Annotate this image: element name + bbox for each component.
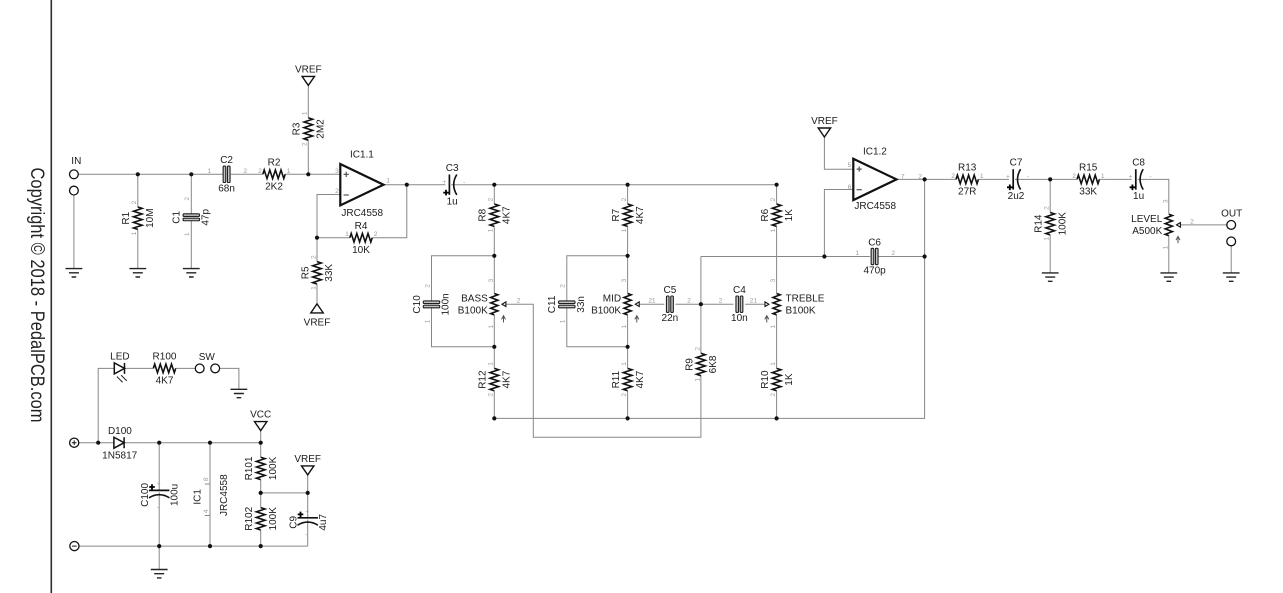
wire bbox=[125, 367, 154, 369]
wire bbox=[1230, 246, 1232, 273]
wire bbox=[79, 442, 114, 444]
svg-text:R13: R13 bbox=[958, 163, 977, 174]
svg-text:C3: C3 bbox=[446, 163, 459, 174]
resistor R101 bbox=[244, 456, 279, 480]
ground bbox=[66, 269, 83, 277]
junction bbox=[492, 254, 496, 258]
junction bbox=[96, 441, 100, 445]
capacitor C100 bbox=[140, 481, 181, 511]
capacitor C5 bbox=[662, 285, 679, 324]
svg-text:3: 3 bbox=[488, 278, 495, 282]
VREF supply bbox=[295, 64, 322, 85]
wire bbox=[73, 195, 75, 269]
svg-text:7: 7 bbox=[901, 173, 905, 180]
resistor R6 bbox=[760, 197, 795, 232]
svg-text:D100: D100 bbox=[108, 426, 132, 437]
svg-text:4K7: 4K7 bbox=[156, 376, 174, 387]
resistor R7 bbox=[611, 197, 646, 232]
junction bbox=[775, 183, 779, 187]
svg-text:1: 1 bbox=[652, 298, 656, 305]
svg-text:1: 1 bbox=[770, 228, 777, 232]
wire bbox=[285, 173, 340, 175]
svg-text:+: + bbox=[1129, 174, 1133, 181]
capacitor C10 bbox=[412, 284, 452, 324]
wire bbox=[1180, 224, 1226, 226]
svg-text:1u: 1u bbox=[447, 197, 458, 208]
wire bbox=[493, 226, 495, 255]
svg-text:1: 1 bbox=[424, 319, 431, 323]
wire bbox=[432, 256, 495, 301]
junction bbox=[315, 236, 319, 240]
svg-text:VREF: VREF bbox=[295, 64, 322, 75]
svg-text:C8: C8 bbox=[1132, 158, 1145, 169]
wire bbox=[1099, 178, 1131, 180]
svg-text:2: 2 bbox=[687, 298, 691, 305]
svg-text:A500K: A500K bbox=[1132, 226, 1162, 237]
wire bbox=[700, 257, 702, 354]
potentiometer LEVEL bbox=[1131, 199, 1180, 249]
svg-text:1: 1 bbox=[488, 228, 495, 232]
capacitor C8 bbox=[1129, 158, 1152, 203]
junction bbox=[626, 345, 630, 349]
wire bbox=[627, 185, 629, 204]
svg-text:R102: R102 bbox=[244, 506, 255, 530]
svg-text:100K: 100K bbox=[268, 507, 279, 531]
svg-text:B100K: B100K bbox=[591, 305, 621, 316]
wire bbox=[137, 229, 139, 268]
svg-text:2: 2 bbox=[951, 173, 955, 180]
VCC supply bbox=[250, 410, 271, 431]
svg-text:33K: 33K bbox=[1079, 187, 1097, 198]
svg-text:C9: C9 bbox=[289, 515, 300, 528]
svg-text:2: 2 bbox=[131, 200, 138, 204]
svg-text:R8: R8 bbox=[478, 208, 489, 221]
svg-text:+: + bbox=[305, 508, 309, 515]
resistor R12 bbox=[478, 362, 513, 397]
svg-text:1: 1 bbox=[310, 286, 317, 290]
svg-text:10n: 10n bbox=[731, 313, 748, 324]
junction bbox=[306, 491, 310, 495]
potentiometer TREBLE bbox=[765, 278, 825, 328]
connector OUT jack bbox=[1221, 208, 1242, 245]
connector IN jack bbox=[70, 156, 82, 195]
junction bbox=[626, 416, 630, 420]
potentiometer MID bbox=[591, 278, 639, 328]
wire bbox=[675, 303, 701, 305]
svg-text:27R: 27R bbox=[958, 187, 976, 198]
svg-text:R11: R11 bbox=[611, 370, 622, 388]
junction bbox=[259, 441, 263, 445]
svg-text:1: 1 bbox=[855, 250, 859, 257]
svg-text:1: 1 bbox=[694, 378, 701, 382]
junction bbox=[775, 416, 779, 420]
IC1 power rail bbox=[209, 443, 211, 546]
svg-text:3: 3 bbox=[1162, 199, 1169, 203]
ground bbox=[1223, 273, 1240, 281]
wire bbox=[260, 530, 262, 546]
svg-text:C10: C10 bbox=[412, 295, 423, 314]
wire bbox=[824, 190, 853, 257]
wire bbox=[307, 140, 309, 174]
svg-text:1: 1 bbox=[302, 111, 309, 115]
capacitor C4 bbox=[731, 285, 748, 324]
svg-text:R101: R101 bbox=[244, 456, 255, 480]
svg-text:VREF: VREF bbox=[811, 116, 838, 127]
svg-text:33n: 33n bbox=[576, 296, 587, 313]
svg-text:2: 2 bbox=[335, 188, 339, 195]
svg-text:100n: 100n bbox=[441, 293, 452, 315]
svg-text:1K: 1K bbox=[784, 209, 795, 222]
ground bbox=[129, 269, 146, 277]
IC1 power JRC4558 bbox=[193, 474, 230, 516]
svg-text:2: 2 bbox=[302, 142, 309, 146]
wire bbox=[701, 256, 870, 258]
svg-text:10K: 10K bbox=[352, 245, 370, 256]
svg-text:1: 1 bbox=[207, 168, 211, 175]
svg-text:R10: R10 bbox=[760, 370, 771, 389]
junction bbox=[405, 183, 409, 187]
svg-text:2: 2 bbox=[621, 393, 628, 397]
wire bbox=[493, 315, 495, 347]
resistor R15 bbox=[1072, 163, 1105, 198]
op-amp IC1.2 bbox=[853, 147, 896, 212]
wire bbox=[307, 475, 309, 518]
resistor R100 bbox=[153, 352, 177, 387]
wire bbox=[776, 226, 778, 293]
op-amp IC1.1 bbox=[340, 150, 383, 220]
junction bbox=[189, 172, 193, 176]
svg-text:2: 2 bbox=[488, 393, 495, 397]
terminal - (GND) bbox=[70, 542, 79, 551]
svg-text:2: 2 bbox=[374, 231, 378, 238]
wire bbox=[567, 308, 628, 347]
svg-text:1: 1 bbox=[560, 319, 567, 323]
svg-text:2: 2 bbox=[621, 197, 628, 201]
svg-text:5: 5 bbox=[848, 162, 852, 169]
svg-text:2: 2 bbox=[560, 284, 567, 288]
svg-text:R7: R7 bbox=[611, 208, 622, 221]
LED bbox=[110, 351, 129, 382]
junction bbox=[492, 416, 496, 420]
resistor R13 bbox=[951, 163, 984, 198]
ground bbox=[231, 389, 248, 397]
svg-text:1u: 1u bbox=[1133, 191, 1144, 202]
capacitor C6 bbox=[855, 237, 895, 276]
wire bbox=[897, 178, 957, 180]
wire bbox=[627, 226, 629, 255]
svg-text:4u7: 4u7 bbox=[318, 514, 329, 531]
svg-text:R6: R6 bbox=[760, 208, 771, 221]
svg-text:6: 6 bbox=[848, 184, 852, 191]
svg-text:1: 1 bbox=[386, 178, 390, 185]
svg-text:2: 2 bbox=[1044, 206, 1051, 210]
junction bbox=[157, 441, 161, 445]
junction bbox=[492, 183, 496, 187]
svg-text:2: 2 bbox=[258, 168, 262, 175]
wire bbox=[493, 256, 495, 294]
svg-text:Copyright © 2018 - PedalPCB.co: Copyright © 2018 - PedalPCB.com bbox=[26, 168, 48, 423]
junction bbox=[1048, 177, 1052, 181]
svg-text:LED: LED bbox=[110, 351, 129, 362]
svg-text:1: 1 bbox=[1162, 245, 1169, 249]
svg-text:R9: R9 bbox=[684, 358, 695, 371]
junction bbox=[626, 254, 630, 258]
wire bbox=[1049, 235, 1051, 273]
wire bbox=[190, 174, 192, 214]
junction bbox=[822, 254, 826, 258]
svg-text:C2: C2 bbox=[220, 155, 233, 166]
capacitor C1 bbox=[172, 197, 212, 237]
wire bbox=[627, 347, 629, 369]
svg-text:-: - bbox=[157, 504, 159, 511]
wire bbox=[261, 492, 308, 494]
svg-text:C100: C100 bbox=[140, 483, 151, 507]
wire bbox=[824, 137, 853, 169]
wire bbox=[158, 443, 160, 491]
resistor R5 bbox=[300, 255, 335, 290]
capacitor C7 bbox=[1006, 158, 1029, 203]
resistor R8 bbox=[478, 197, 513, 232]
svg-text:IN: IN bbox=[71, 156, 81, 167]
junction bbox=[306, 172, 310, 176]
wire bbox=[260, 431, 262, 443]
svg-text:2: 2 bbox=[770, 197, 777, 201]
svg-text:C1: C1 bbox=[172, 210, 183, 223]
wire bbox=[627, 256, 629, 294]
svg-text:IC1: IC1 bbox=[193, 489, 204, 505]
wire bbox=[567, 256, 628, 301]
svg-text:C5: C5 bbox=[664, 285, 677, 296]
svg-text:3: 3 bbox=[335, 168, 339, 175]
svg-text:2: 2 bbox=[517, 298, 521, 305]
svg-text:-: - bbox=[1149, 174, 1151, 181]
svg-text:C6: C6 bbox=[868, 237, 881, 248]
wire bbox=[493, 185, 495, 204]
svg-text:JRC4558: JRC4558 bbox=[219, 474, 230, 516]
svg-text:1: 1 bbox=[287, 168, 291, 175]
wire bbox=[260, 443, 262, 458]
wire bbox=[316, 284, 318, 304]
junction bbox=[259, 491, 263, 495]
svg-text:1: 1 bbox=[488, 362, 495, 366]
wire bbox=[220, 368, 239, 389]
wire bbox=[493, 347, 495, 369]
svg-text:2: 2 bbox=[891, 250, 895, 257]
svg-text:4K7: 4K7 bbox=[502, 206, 513, 224]
svg-text:4K7: 4K7 bbox=[635, 206, 646, 224]
svg-text:R12: R12 bbox=[478, 370, 489, 389]
wire bbox=[1015, 178, 1077, 180]
svg-text:1: 1 bbox=[1044, 237, 1051, 241]
wire bbox=[1138, 179, 1169, 214]
svg-text:R3: R3 bbox=[292, 122, 303, 135]
wire bbox=[494, 179, 924, 418]
capacitor C11 bbox=[547, 284, 587, 324]
resistor R11 bbox=[611, 362, 646, 397]
wire bbox=[231, 173, 263, 175]
svg-text:JRC4558: JRC4558 bbox=[854, 201, 896, 212]
svg-text:VCC: VCC bbox=[250, 410, 271, 421]
wire bbox=[776, 315, 778, 369]
svg-text:1: 1 bbox=[621, 325, 628, 329]
svg-text:1: 1 bbox=[770, 362, 777, 366]
svg-text:2M2: 2M2 bbox=[316, 119, 327, 139]
svg-text:JRC4558: JRC4558 bbox=[341, 208, 383, 219]
wire bbox=[384, 184, 445, 186]
svg-text:-: - bbox=[463, 179, 465, 186]
svg-text:-: - bbox=[1027, 174, 1029, 181]
svg-text:47p: 47p bbox=[200, 209, 211, 226]
svg-text:4: 4 bbox=[203, 509, 210, 513]
wire bbox=[158, 492, 160, 546]
VREF supply bbox=[811, 116, 838, 137]
svg-text:1: 1 bbox=[770, 325, 777, 329]
wire bbox=[98, 368, 114, 442]
wire bbox=[316, 238, 318, 262]
wire bbox=[701, 303, 734, 305]
svg-text:100u: 100u bbox=[170, 484, 181, 506]
wire bbox=[260, 480, 262, 493]
potentiometer BASS bbox=[458, 278, 506, 328]
junction bbox=[492, 345, 496, 349]
wire bbox=[432, 308, 495, 347]
svg-text:8: 8 bbox=[203, 477, 210, 481]
svg-text:1: 1 bbox=[754, 298, 758, 305]
svg-text:4K7: 4K7 bbox=[635, 370, 646, 388]
svg-text:1: 1 bbox=[488, 325, 495, 329]
svg-text:1: 1 bbox=[621, 228, 628, 232]
svg-text:LEVEL: LEVEL bbox=[1131, 214, 1163, 225]
svg-text:B100K: B100K bbox=[786, 305, 816, 316]
svg-text:1: 1 bbox=[980, 173, 984, 180]
svg-text:1N5817: 1N5817 bbox=[102, 450, 137, 461]
svg-text:2K2: 2K2 bbox=[265, 182, 283, 193]
svg-text:10M: 10M bbox=[145, 208, 156, 227]
svg-text:2u2: 2u2 bbox=[1008, 191, 1025, 202]
resistor R2 bbox=[258, 158, 291, 193]
svg-text:1K: 1K bbox=[784, 373, 795, 386]
capacitor C3 bbox=[442, 163, 465, 208]
svg-text:22n: 22n bbox=[662, 313, 679, 324]
svg-text:2: 2 bbox=[488, 197, 495, 201]
wire bbox=[372, 185, 407, 238]
svg-text:1: 1 bbox=[1101, 173, 1105, 180]
svg-text:2: 2 bbox=[770, 393, 777, 397]
switch SW bbox=[195, 352, 219, 373]
wire bbox=[639, 303, 664, 305]
diode D100 bbox=[102, 426, 137, 462]
svg-text:2: 2 bbox=[424, 284, 431, 288]
wire bbox=[124, 442, 261, 444]
svg-text:+: + bbox=[442, 179, 446, 186]
svg-text:-: - bbox=[305, 531, 307, 538]
svg-text:100K: 100K bbox=[1057, 212, 1068, 236]
svg-text:R4: R4 bbox=[355, 221, 368, 232]
svg-text:6K8: 6K8 bbox=[708, 355, 719, 373]
wire bbox=[627, 315, 629, 347]
ground bbox=[151, 570, 168, 578]
svg-text:33K: 33K bbox=[324, 264, 335, 282]
wire bbox=[627, 391, 629, 419]
VREF supply bbox=[294, 454, 321, 475]
svg-text:470p: 470p bbox=[863, 266, 886, 277]
wire bbox=[1168, 235, 1170, 273]
svg-text:R1: R1 bbox=[121, 211, 132, 224]
wire bbox=[878, 256, 925, 258]
svg-text:+: + bbox=[1006, 174, 1010, 181]
svg-text:C7: C7 bbox=[1010, 158, 1023, 169]
junction bbox=[208, 441, 212, 445]
resistor R10 bbox=[760, 362, 795, 397]
svg-text:2: 2 bbox=[310, 255, 317, 259]
resistor R3 bbox=[292, 111, 327, 146]
svg-text:1: 1 bbox=[345, 231, 349, 238]
ground bbox=[1160, 273, 1177, 281]
capacitor C2 bbox=[207, 155, 247, 194]
svg-text:1: 1 bbox=[184, 232, 191, 236]
svg-text:3: 3 bbox=[770, 278, 777, 282]
resistor R4 bbox=[345, 221, 378, 256]
capacitor C9 bbox=[289, 508, 330, 538]
svg-text:2: 2 bbox=[918, 173, 922, 180]
VREF supply bbox=[304, 304, 331, 329]
svg-text:C4: C4 bbox=[733, 285, 746, 296]
svg-text:1: 1 bbox=[131, 231, 138, 235]
svg-text:VREF: VREF bbox=[304, 318, 331, 329]
svg-text:R2: R2 bbox=[268, 158, 281, 169]
svg-text:2: 2 bbox=[1190, 218, 1194, 225]
resistor R14 bbox=[1034, 206, 1069, 241]
wire bbox=[158, 546, 160, 569]
junction bbox=[923, 254, 927, 258]
svg-text:SW: SW bbox=[199, 352, 216, 363]
svg-text:3: 3 bbox=[621, 278, 628, 282]
svg-text:MID: MID bbox=[603, 294, 621, 305]
wire bbox=[978, 178, 1009, 180]
svg-text:C11: C11 bbox=[547, 295, 558, 313]
svg-text:R14: R14 bbox=[1034, 214, 1045, 233]
wire bbox=[78, 173, 223, 175]
wire bbox=[176, 367, 196, 369]
ground bbox=[183, 269, 200, 277]
wire bbox=[493, 391, 495, 419]
junction bbox=[136, 172, 140, 176]
wire bbox=[776, 391, 778, 419]
svg-text:2: 2 bbox=[184, 197, 191, 201]
wire bbox=[190, 221, 192, 269]
resistor R1 bbox=[121, 200, 156, 235]
wire bbox=[745, 303, 765, 305]
wire bbox=[79, 545, 308, 547]
svg-text:R15: R15 bbox=[1079, 163, 1098, 174]
wire bbox=[317, 237, 350, 239]
svg-text:IC1.2: IC1.2 bbox=[863, 147, 887, 158]
svg-text:B100K: B100K bbox=[458, 305, 488, 316]
svg-text:IC1.1: IC1.1 bbox=[350, 150, 374, 161]
svg-text:+: + bbox=[157, 481, 161, 488]
svg-text:2: 2 bbox=[719, 298, 723, 305]
junction bbox=[259, 544, 263, 548]
junction bbox=[208, 544, 212, 548]
wire bbox=[1049, 179, 1051, 212]
wire bbox=[506, 304, 701, 437]
wire bbox=[317, 195, 340, 238]
resistor R102 bbox=[244, 506, 279, 530]
junction bbox=[923, 177, 927, 181]
svg-text:R5: R5 bbox=[300, 266, 311, 279]
junction bbox=[157, 544, 161, 548]
svg-text:BASS: BASS bbox=[461, 294, 488, 305]
